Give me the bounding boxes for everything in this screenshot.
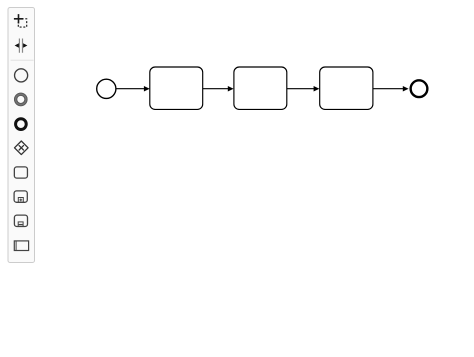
sequence flow 3 [287,86,320,92]
participant (pool) tool icon [14,241,28,251]
intermediate event tool icon [14,93,27,106]
collapsed subprocess tool icon [14,191,27,202]
end event [411,80,428,97]
end event tool icon [16,119,27,130]
exclusive gateway tool icon [15,141,29,155]
task 1 [150,67,203,109]
task 2 [234,67,287,109]
expanded subprocess tool icon [14,215,27,226]
lasso tool icon [14,14,27,27]
task tool icon [14,167,27,178]
space tool icon [15,39,28,53]
sequence flow 2 [203,86,234,92]
sequence flow 1 [116,86,150,92]
task 3 [320,67,373,109]
palette panel [8,8,35,263]
palette separator [11,59,34,61]
start event tool icon [15,69,28,82]
start event [97,79,116,98]
sequence flow 4 [373,86,408,92]
